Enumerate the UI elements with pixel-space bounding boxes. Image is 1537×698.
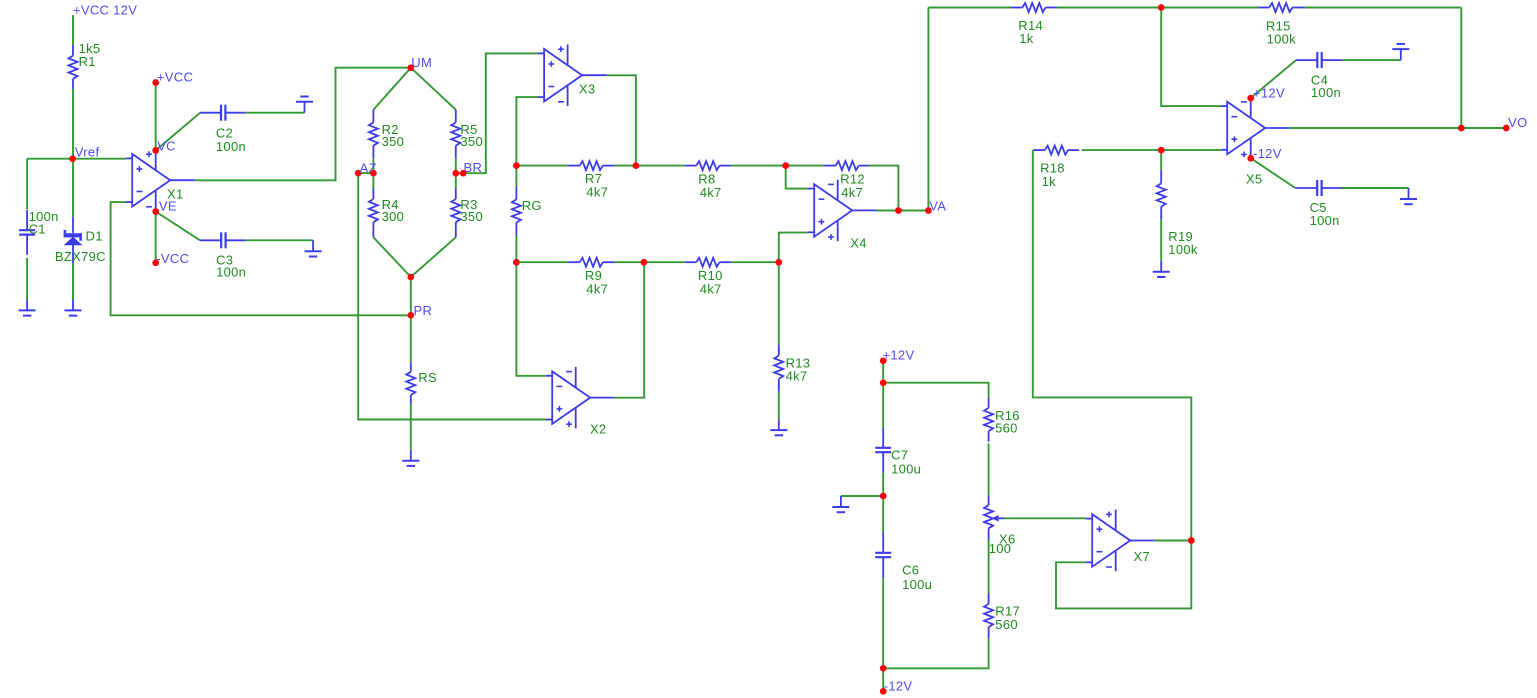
resistor R7 — [568, 161, 614, 170]
svg-text:VE: VE — [159, 198, 177, 213]
node VE — [152, 198, 177, 215]
node -12V supply — [880, 679, 913, 695]
wire RG to R7 — [516, 165, 568, 167]
ground at C1 — [19, 299, 36, 315]
wire AZ to X2 + input — [358, 173, 546, 419]
wire Vref row to X1 + input — [27, 158, 126, 160]
svg-text:350: 350 — [460, 134, 483, 149]
ground at C3 — [305, 240, 322, 256]
wire junction to X4 + input — [779, 233, 808, 263]
zener diode D1 — [64, 217, 82, 263]
svg-text:X2: X2 — [590, 421, 607, 436]
wire bridge bottom to PR — [410, 277, 412, 315]
node AZ — [355, 160, 377, 176]
label X5 — [1246, 172, 1263, 187]
op-amp X4 — [808, 180, 877, 242]
resistor R17 — [984, 594, 993, 639]
svg-text:PR: PR — [414, 303, 433, 318]
wire R2 to AZ — [372, 158, 374, 173]
capacitor C3 — [200, 232, 246, 248]
svg-text:100: 100 — [989, 541, 1012, 556]
wire R13 to ground — [778, 391, 780, 419]
wire R15 to corner — [1305, 7, 1462, 9]
svg-text:X5: X5 — [1246, 172, 1263, 187]
svg-text:+VCC 12V: +VCC 12V — [73, 3, 137, 18]
label C7 100u — [891, 448, 921, 477]
resistor R13 — [774, 345, 783, 391]
label C4 100n — [1311, 73, 1341, 101]
junction ground tap — [880, 493, 887, 500]
op-amp X7 — [1086, 510, 1155, 572]
wire VA riser to R14 — [927, 8, 929, 211]
junction R15 feedback — [1458, 125, 1465, 132]
wire X1 - input loop to PR — [111, 202, 411, 315]
ground at C4 — [1392, 44, 1409, 60]
svg-text:R1: R1 — [79, 54, 96, 69]
svg-text:560: 560 — [995, 421, 1018, 436]
wire R1 to Vref — [72, 89, 74, 158]
ground at C7 tap — [832, 496, 849, 512]
svg-text:+12V: +12V — [883, 348, 915, 363]
svg-text:VO: VO — [1508, 115, 1527, 130]
resistor RS — [406, 362, 415, 404]
svg-text:100n: 100n — [216, 265, 246, 280]
wire rail to -12V — [882, 668, 884, 691]
label R10 4k7 — [698, 268, 723, 297]
svg-text:1k: 1k — [1042, 174, 1057, 189]
wire C2 to ground — [246, 112, 305, 114]
wire junction to C7 — [882, 383, 884, 428]
wire R19 to ground — [1160, 220, 1162, 261]
junction bridge bottom — [407, 274, 414, 281]
label C5 100n — [1310, 200, 1340, 228]
op-amp X3 — [538, 45, 607, 107]
wire BR to X3 + input — [463, 53, 537, 173]
svg-text:4k7: 4k7 — [700, 185, 722, 200]
wire D1 to ground — [72, 263, 74, 299]
wire junction to R12 — [786, 165, 825, 167]
wire R9 to junction — [614, 261, 644, 263]
wire R15 feedback riser — [1460, 8, 1462, 129]
wire tap to ground — [841, 495, 883, 497]
svg-text:D1: D1 — [86, 229, 103, 244]
resistor R2 — [369, 110, 378, 159]
ground at D1 — [65, 299, 82, 315]
label R3 350 — [460, 197, 483, 224]
wire junction to R13 — [778, 262, 780, 345]
svg-text:BZX79C: BZX79C — [55, 249, 106, 264]
wire rail junction to X5 - input — [1161, 8, 1221, 107]
svg-text:100n: 100n — [1311, 85, 1341, 100]
wire C1 to ground — [26, 258, 28, 300]
svg-text:100n: 100n — [216, 139, 246, 154]
resistor R10 — [685, 258, 731, 267]
resistor R19 — [1157, 170, 1166, 219]
wire X7 output — [1155, 540, 1192, 542]
wire VE to -VCC — [155, 212, 157, 263]
label C2 100n — [216, 126, 246, 155]
wire X3 - input to RG top — [516, 97, 537, 166]
wire X6 wiper to X7 + input — [1004, 517, 1085, 519]
svg-text:VC: VC — [157, 138, 176, 153]
label C1 100n — [29, 209, 59, 237]
svg-text:4k7: 4k7 — [786, 368, 808, 383]
svg-text:RS: RS — [418, 370, 437, 385]
capacitor C4 — [1296, 52, 1342, 68]
wire junction to R16 — [883, 383, 988, 398]
svg-text:350: 350 — [382, 134, 405, 149]
wire junction to R15 — [1161, 7, 1258, 9]
svg-text:300: 300 — [382, 209, 405, 224]
svg-text:C6: C6 — [902, 563, 919, 578]
node VA — [925, 198, 946, 214]
label R15 100k — [1266, 18, 1296, 46]
junction R7 R8 X3 — [633, 162, 640, 169]
wire C6 to bottom rail — [882, 578, 884, 668]
wire X5 output — [1290, 127, 1462, 129]
junction -12V rail — [880, 665, 887, 672]
wire tap to C6 — [882, 496, 884, 533]
svg-text:4k7: 4k7 — [586, 282, 608, 297]
label RS — [418, 370, 437, 385]
resistor R16 — [984, 397, 993, 441]
wire R18 to junction — [1082, 149, 1161, 151]
op-amp X5 — [1221, 98, 1290, 158]
label X6 100 — [989, 532, 1016, 557]
label R12 4k7 — [840, 172, 865, 201]
potentiometer X6 — [984, 496, 1004, 541]
svg-text:-12V: -12V — [884, 679, 913, 694]
wire +VCC to R1 — [72, 15, 74, 45]
wire junction to R8 — [636, 165, 685, 167]
node VO — [1503, 115, 1528, 131]
label R17 560 — [995, 604, 1020, 633]
wire PR to RS — [410, 315, 412, 362]
wire RS to ground — [410, 405, 412, 450]
wire Vref to D1 — [72, 159, 74, 218]
label R7 4k7 — [585, 171, 608, 200]
ground at C5 — [1400, 188, 1417, 204]
wire output to VO — [1461, 127, 1506, 129]
op-amp X2 — [546, 367, 615, 429]
svg-text:350: 350 — [460, 209, 483, 224]
wire junction to VA — [898, 210, 928, 212]
junction R8 R12 X4 — [782, 162, 789, 169]
svg-text:4k7: 4k7 — [586, 185, 608, 200]
label D1 BZX79C — [55, 229, 106, 264]
resistor R3 — [451, 188, 460, 237]
wire C5 to ground — [1342, 187, 1409, 189]
wire X5 VE to C5 — [1251, 158, 1296, 188]
label X1 — [167, 186, 184, 201]
wire AZ to R4 — [372, 173, 374, 188]
junction R9 R10 X2 — [641, 259, 648, 266]
label X2 — [590, 421, 607, 436]
svg-text:X3: X3 — [579, 82, 596, 97]
svg-text:RG: RG — [522, 198, 542, 213]
label C3 100n — [216, 252, 246, 279]
junction R10 R13 X4 — [775, 259, 782, 266]
svg-text:1k: 1k — [1019, 31, 1034, 46]
node BR — [452, 160, 482, 177]
node +VCC 12V net label — [73, 3, 137, 18]
label R9 4k7 — [585, 268, 608, 297]
label R14 1k — [1018, 18, 1043, 46]
svg-text:100n: 100n — [1310, 213, 1340, 228]
capacitor C6 — [875, 533, 891, 579]
svg-text:+12V: +12V — [1253, 85, 1285, 100]
node VC — [152, 138, 176, 153]
label R18 1k — [1040, 161, 1065, 189]
resistor R8 — [685, 161, 731, 170]
wire R8 to junction — [731, 165, 786, 167]
svg-text:100u: 100u — [902, 577, 932, 592]
wire X4 output to VA — [877, 210, 899, 212]
wire R4 to bridge bottom — [373, 237, 410, 277]
label X4 — [850, 236, 867, 251]
resistor R4 — [369, 188, 378, 237]
svg-text:Vref: Vref — [75, 145, 100, 160]
svg-text:+VCC: +VCC — [157, 70, 193, 85]
wire bottom rail to R17 — [883, 638, 988, 668]
svg-text:VA: VA — [929, 198, 946, 213]
ground at RS — [402, 450, 419, 466]
junction R18 R19 X5 — [1158, 147, 1165, 154]
wire R3 to bridge bottom — [411, 237, 456, 277]
node +12V at X5 — [1247, 85, 1285, 101]
wire RG bottom lead — [515, 236, 517, 263]
svg-text:100u: 100u — [891, 461, 921, 476]
resistor R1 — [69, 45, 78, 89]
wire R18 riser to X7 output — [1033, 150, 1192, 540]
wire UM to R2 — [373, 68, 410, 110]
resistor RG — [512, 186, 521, 235]
wire X6 to R17 — [988, 541, 990, 594]
wire junction to R19 — [1160, 150, 1162, 170]
resistor R9 — [568, 258, 614, 267]
wire X7 feedback loop — [1056, 541, 1191, 609]
wire R7 to junction — [614, 165, 636, 167]
wire junction to R10 — [644, 261, 685, 263]
wire rail to R14 — [928, 7, 1011, 9]
junction X7 output — [1188, 537, 1195, 544]
wire X5 VC to C4 — [1251, 60, 1296, 98]
capacitor C7 — [875, 428, 891, 473]
label X3 — [579, 82, 596, 97]
svg-text:560: 560 — [995, 617, 1018, 632]
wire junction to X4 - input — [786, 166, 808, 189]
wire BR to R3 — [455, 173, 457, 188]
wire VC to C2 — [156, 113, 201, 151]
wire RG top lead — [515, 166, 517, 187]
capacitor C2 — [200, 105, 246, 121]
wire R18 corner — [1033, 149, 1036, 151]
junction X4 output — [895, 207, 902, 214]
wire R10 to junction — [731, 261, 779, 263]
resistor R5 — [451, 110, 460, 159]
wire Vref to C1 — [26, 159, 28, 210]
junction RG bottom — [513, 259, 520, 266]
ground at R13 — [770, 419, 787, 435]
junction RG top — [513, 162, 520, 169]
label RG — [522, 198, 542, 213]
wire R5 to BR — [455, 158, 457, 173]
svg-text:UM: UM — [411, 55, 432, 70]
svg-text:100k: 100k — [1168, 242, 1198, 257]
wire X2 output to R9 mid — [615, 262, 645, 398]
label R13 4k7 — [786, 356, 811, 384]
wire R14 to junction — [1057, 7, 1161, 9]
label R8 4k7 — [698, 172, 721, 201]
wire AZ link — [358, 172, 373, 174]
wire X3 output feedback — [607, 75, 636, 165]
capacitor C5 — [1295, 180, 1341, 196]
ground at R19 — [1153, 261, 1170, 277]
svg-text:4k7: 4k7 — [841, 185, 863, 200]
label C6 100u — [902, 563, 932, 592]
svg-text:X7: X7 — [1134, 549, 1151, 564]
resistor R12 — [824, 161, 869, 170]
node Vref — [69, 145, 99, 163]
wire +VCC to VC pin — [155, 83, 157, 151]
wire C4 to ground — [1342, 59, 1400, 61]
label R5 350 — [460, 122, 483, 149]
label R1 1k5 — [79, 41, 101, 69]
junction BR right — [460, 170, 467, 177]
wire RG to X2 - input — [516, 262, 545, 376]
wire VE to C3 — [156, 212, 200, 241]
label X7 — [1134, 549, 1151, 564]
wire C7 to ground tap — [882, 473, 884, 497]
ground at C2 — [296, 97, 313, 113]
wire UM to R5 — [411, 68, 456, 110]
node -VCC — [152, 251, 189, 266]
wire C3 to ground — [246, 239, 314, 241]
op-amp X1 — [126, 150, 195, 210]
wire R16 to X6 — [988, 443, 990, 495]
junction R14 R15 X5 — [1158, 4, 1165, 11]
label R19 100k — [1168, 229, 1198, 257]
junction AZ right — [370, 170, 377, 177]
junction +12V rail — [880, 379, 887, 386]
svg-text:4k7: 4k7 — [700, 282, 722, 297]
wire X1 output to UM — [195, 68, 411, 181]
node UM — [407, 55, 432, 71]
node +12V supply — [880, 348, 915, 365]
node +VCC — [152, 70, 193, 86]
svg-text:-12V: -12V — [1253, 146, 1282, 161]
svg-text:-VCC: -VCC — [156, 251, 189, 266]
svg-text:X4: X4 — [850, 236, 867, 251]
wire RG to R9 — [516, 261, 568, 263]
resistor R15 — [1258, 3, 1304, 12]
wire junction to X5 + input — [1161, 149, 1221, 151]
label R2 350 — [382, 122, 405, 149]
resistor R18 — [1034, 146, 1079, 155]
resistor R14 — [1011, 3, 1057, 12]
svg-text:100k: 100k — [1267, 32, 1297, 47]
label R4 300 — [382, 197, 405, 224]
capacitor C1 — [19, 210, 35, 255]
wire BR link — [456, 172, 463, 174]
label R16 560 — [995, 408, 1020, 436]
wire R12 to X4 output — [869, 166, 898, 211]
node PR — [407, 303, 432, 319]
wire +12V to junction — [882, 361, 884, 383]
node -12V at X5 — [1247, 146, 1281, 161]
svg-text:C1: C1 — [29, 221, 46, 236]
